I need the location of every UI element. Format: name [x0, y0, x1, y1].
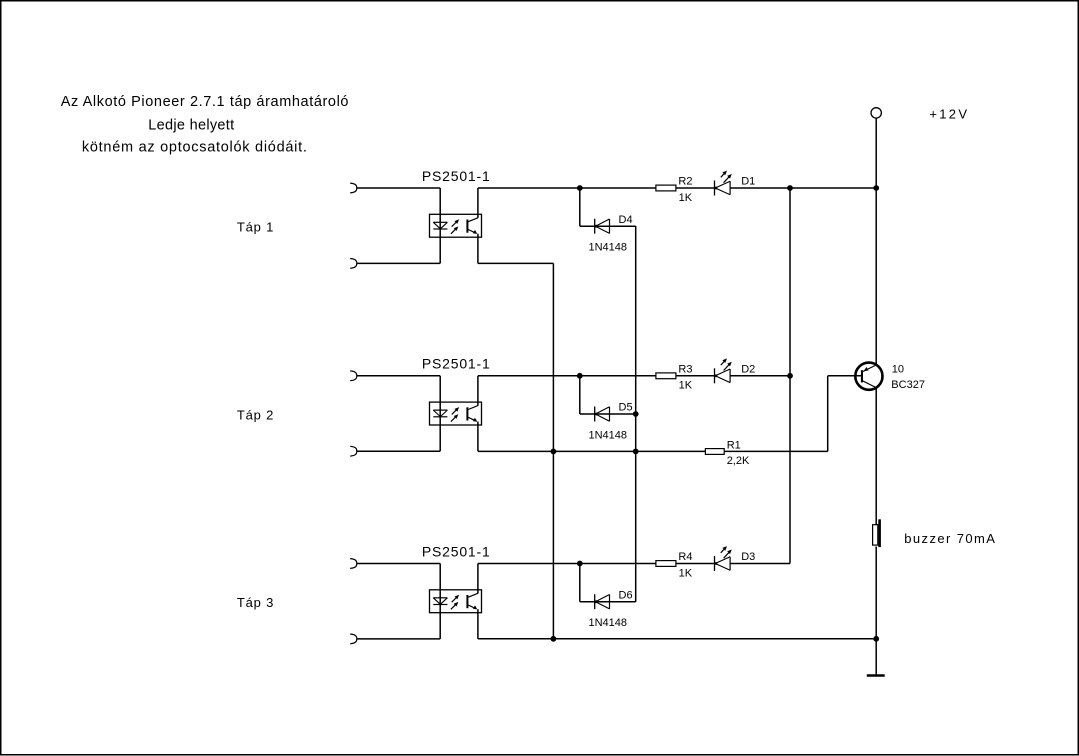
svg-text:Az Alkotó Pioneer 2.7.1 táp ár: Az Alkotó Pioneer 2.7.1 táp áramhatároló: [61, 94, 349, 110]
wire: [357, 187, 440, 189]
+12V supply terminal: [871, 106, 969, 121]
wire: [676, 375, 715, 377]
wire emitter U1: [477, 234, 479, 264]
svg-text:Ledje helyett: Ledje helyett: [148, 118, 234, 134]
junction: [873, 636, 879, 642]
svg-text:D4: D4: [619, 214, 633, 226]
wire: [730, 563, 790, 565]
resistor R2: [656, 176, 693, 191]
wire buzzer to bottom rail: [875, 547, 877, 639]
junction: [633, 411, 639, 417]
wire: [730, 375, 790, 377]
wire diode branch: [579, 564, 581, 602]
diode D6 1N4148: [595, 589, 633, 609]
svg-text:D5: D5: [619, 402, 633, 414]
svg-text:R4: R4: [678, 551, 692, 563]
svg-text:R1: R1: [727, 439, 741, 451]
LED D2: [715, 358, 756, 383]
svg-text:Táp 2: Táp 2: [237, 407, 274, 422]
input terminal U1 pin 1: [350, 183, 357, 193]
wire R1 to base vertical: [827, 376, 829, 452]
optocoupler U1 PS2501-1: [422, 168, 491, 264]
wire diode bus vertical: [635, 226, 637, 602]
wire LED cathode bus vertical: [789, 188, 791, 564]
wire rail row1 to transistor emitter: [875, 188, 877, 365]
title note text: [61, 94, 349, 155]
resistor R1: [705, 439, 740, 454]
wire +12V rail top: [875, 118, 877, 188]
svg-text:PS2501-1: PS2501-1: [422, 168, 491, 184]
svg-text:1K: 1K: [679, 192, 693, 204]
wire emitter U3: [477, 609, 479, 639]
wire emitter U2: [477, 422, 479, 452]
junction: [577, 561, 583, 567]
transistor Q1 BC327 PNP: [855, 363, 882, 390]
junction: [577, 185, 583, 191]
wire: [730, 187, 876, 189]
diode D4 1N4148: [595, 214, 633, 234]
wire: [357, 375, 440, 377]
diode D5 1N4148: [595, 402, 633, 422]
wire collector U1: [477, 188, 479, 218]
junction: [551, 636, 557, 642]
junction: [577, 373, 583, 379]
svg-text:Táp 1: Táp 1: [237, 220, 274, 235]
LED D3: [715, 546, 756, 571]
wire R1 node horizontal: [478, 450, 828, 452]
wire row output: [478, 375, 656, 377]
optocoupler U2 PS2501-1: [422, 356, 491, 452]
junction: [787, 373, 793, 379]
wire bottom rail: [478, 638, 876, 640]
wire: [676, 563, 715, 565]
wire: [357, 450, 440, 452]
svg-text:1N4148: 1N4148: [589, 617, 628, 629]
svg-text:R2: R2: [678, 176, 692, 188]
svg-text:+12V: +12V: [929, 106, 969, 121]
svg-text:kötném az optocsatolók diódáit: kötném az optocsatolók diódáit.: [82, 139, 308, 155]
svg-text:1N4148: 1N4148: [589, 242, 628, 254]
input terminal U2 pin 2: [350, 446, 357, 456]
junction: [787, 185, 793, 191]
wire collector U2: [477, 376, 479, 406]
svg-text:buzzer 70mA: buzzer 70mA: [904, 531, 996, 546]
wire emitter bus vertical: [552, 263, 554, 638]
resistor R3: [656, 364, 693, 379]
wire diode branch: [579, 188, 581, 226]
svg-text:BC327: BC327: [891, 379, 925, 391]
LED D1: [715, 171, 756, 196]
wire base of Q1: [828, 375, 862, 377]
wire emitter bend row1: [478, 262, 554, 264]
wire transistor collector to buzzer: [875, 389, 877, 525]
svg-text:2,2K: 2,2K: [727, 455, 750, 467]
svg-text:D3: D3: [741, 551, 755, 563]
wire collector U3: [477, 564, 479, 594]
input terminal U2 pin 1: [350, 371, 357, 381]
svg-text:R3: R3: [678, 364, 692, 376]
wire: [357, 638, 440, 640]
ground: [867, 639, 885, 676]
junction: [633, 449, 639, 455]
wire: [676, 187, 715, 189]
wire diode branch: [579, 376, 581, 414]
input terminal U1 pin 2: [350, 259, 357, 269]
buzzer BZ1: [873, 519, 881, 547]
optocoupler U3 PS2501-1: [422, 543, 491, 639]
resistor R4: [656, 551, 693, 566]
svg-text:PS2501-1: PS2501-1: [422, 543, 491, 559]
svg-text:PS2501-1: PS2501-1: [422, 356, 491, 372]
svg-text:1K: 1K: [679, 567, 693, 579]
svg-text:D1: D1: [741, 176, 755, 188]
junction: [551, 449, 557, 455]
svg-text:10: 10: [892, 364, 904, 376]
input terminal U3 pin 1: [350, 559, 357, 569]
svg-text:D6: D6: [619, 589, 633, 601]
junction: [873, 185, 879, 191]
wire row output: [478, 187, 656, 189]
wire: [357, 563, 440, 565]
wire: [357, 262, 440, 264]
wire row output: [478, 563, 656, 565]
input terminal U3 pin 2: [350, 634, 357, 644]
svg-text:1K: 1K: [679, 380, 693, 392]
svg-text:D2: D2: [741, 364, 755, 376]
svg-text:Táp 3: Táp 3: [237, 595, 274, 610]
svg-text:1N4148: 1N4148: [589, 430, 628, 442]
